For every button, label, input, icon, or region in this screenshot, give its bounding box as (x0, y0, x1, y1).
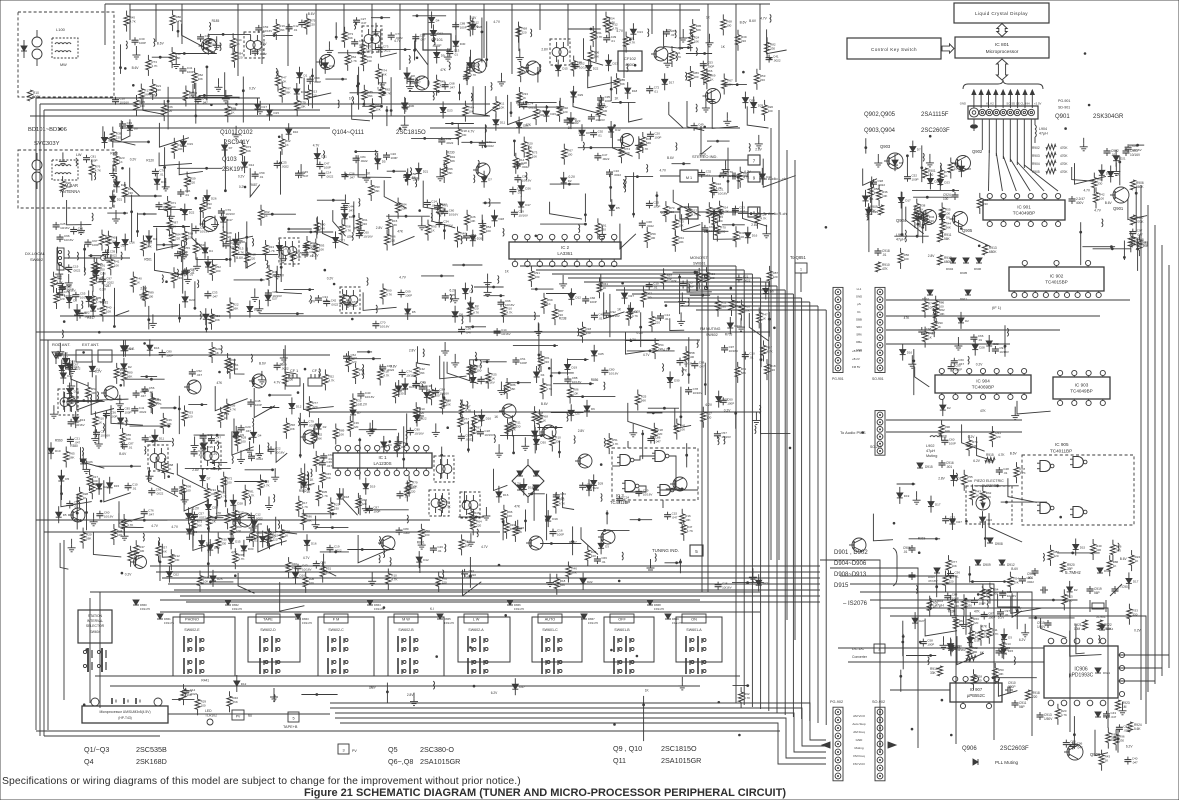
resistor R907 (1130, 215, 1144, 225)
svg-text:Microprocessor: Microprocessor (986, 49, 1019, 55)
svg-text:0.2V: 0.2V (238, 175, 245, 179)
svg-text:330: 330 (929, 219, 934, 223)
svg-text:4.7V: 4.7V (274, 381, 281, 385)
svg-text:100: 100 (1099, 196, 1104, 200)
svg-text:D8: D8 (210, 315, 214, 319)
svg-text:100: 100 (591, 554, 596, 558)
svg-text:L100: L100 (56, 27, 66, 32)
svg-text:10K: 10K (573, 392, 578, 396)
wire vbus bend (552, 273, 752, 275)
svg-text:4.7K: 4.7K (609, 21, 615, 25)
svg-text:D12: D12 (329, 64, 335, 68)
svg-text:4.7K: 4.7K (391, 578, 397, 582)
svg-text:1K: 1K (98, 420, 102, 424)
connector SO-902 strip (875, 707, 885, 781)
svg-text:D921: D921 (1103, 671, 1111, 675)
svg-text:1K: 1K (1135, 559, 1139, 563)
svg-text:10K: 10K (203, 580, 208, 584)
svg-text:.0022: .0022 (73, 268, 81, 272)
diode switch row (665, 614, 682, 625)
svg-text:GND: GND (960, 102, 966, 106)
label Q1-Q3 (84, 745, 167, 754)
label AM BAR (60, 183, 80, 194)
wire staircase (890, 616, 1146, 724)
svg-text:Q905: Q905 (962, 228, 973, 233)
svg-text:1SS176: 1SS176 (232, 607, 242, 611)
svg-text:1SS176: 1SS176 (302, 621, 312, 625)
switch outer box OFF (604, 617, 654, 662)
switch outer box LW (458, 617, 510, 662)
svg-text:56K: 56K (646, 141, 651, 145)
svg-text:L902: L902 (926, 444, 934, 448)
svg-text:D7: D7 (488, 178, 492, 182)
switch LW SW602-A (464, 614, 488, 674)
svg-text:6.2V: 6.2V (95, 369, 102, 373)
svg-text:10K: 10K (1013, 581, 1018, 585)
wire stereo h (430, 127, 740, 129)
wire battery out (168, 713, 330, 715)
svg-text:2SC2603F: 2SC2603F (921, 128, 950, 134)
wire top drop (623, 4, 625, 78)
label 2SC1815O top (332, 130, 426, 136)
svg-text:4.7K: 4.7K (629, 41, 635, 45)
filler cluster (347, 348, 589, 445)
svg-text:D16: D16 (987, 518, 993, 522)
svg-text:LED: LED (205, 709, 212, 713)
svg-text:LA3361: LA3361 (557, 251, 573, 256)
nand gate C (1037, 503, 1054, 514)
svg-text:SW602: SW602 (706, 333, 718, 337)
svg-text:CF 1: CF 1 (290, 369, 298, 373)
svg-text:D30: D30 (674, 378, 680, 382)
IC906 pins (1048, 638, 1106, 706)
wire hbus (168, 583, 820, 585)
wire bottom h4 (335, 718, 826, 758)
svg-text:1K: 1K (83, 496, 87, 500)
svg-text:AUTO: AUTO (545, 618, 556, 622)
wire right margin (1147, 205, 1149, 692)
out box 7 (748, 155, 760, 165)
svg-text:.0022: .0022 (281, 164, 289, 168)
svg-text:D16: D16 (907, 351, 913, 355)
filler cluster (339, 150, 504, 247)
svg-text:1/50V: 1/50V (1044, 717, 1053, 721)
svg-text:PLL Muting: PLL Muting (995, 760, 1019, 765)
svg-text:2SC380-O: 2SC380-O (420, 745, 454, 754)
svg-text:PV: PV (236, 715, 241, 719)
svg-text:.0022: .0022 (259, 52, 267, 56)
diode PLL (973, 759, 978, 765)
wire toq851 (800, 273, 802, 292)
svg-text:10K: 10K (882, 194, 887, 198)
resistor R918 (1025, 690, 1039, 700)
wire r2 (1118, 667, 1162, 669)
svg-text:L904: L904 (1039, 127, 1047, 131)
svg-text:56K: 56K (306, 518, 311, 522)
svg-text:D8: D8 (73, 299, 77, 303)
svg-text:4.7K: 4.7K (386, 293, 392, 297)
wire vbus bend (568, 277, 761, 279)
capacitor C909 (1040, 587, 1048, 594)
svg-text:D27: D27 (272, 296, 278, 300)
filler cluster (340, 264, 774, 368)
transistor Q107 (523, 61, 540, 75)
svg-text:Muting: Muting (926, 454, 937, 458)
wire hbus (174, 589, 820, 591)
op-amp U1 IC801 microprocessor block (955, 37, 1049, 58)
svg-text:DBB: DBB (856, 317, 862, 321)
transformer T103 (434, 456, 454, 482)
wire top drop (707, 4, 709, 66)
svg-text:D17: D17 (1133, 579, 1139, 583)
svg-text:0.2V: 0.2V (125, 572, 132, 576)
svg-text:D27: D27 (956, 520, 962, 524)
filler cluster (623, 140, 796, 248)
transistor Q101 (199, 39, 217, 54)
svg-text:.01: .01 (698, 127, 703, 131)
svg-text:.01: .01 (706, 174, 711, 178)
svg-text:Q901: Q901 (1055, 114, 1070, 120)
svg-text:100: 100 (689, 355, 694, 359)
svg-text:D27: D27 (629, 294, 635, 298)
LCD block (954, 3, 1049, 23)
wire top drop (679, 4, 681, 50)
svg-text:4.7K: 4.7K (744, 696, 750, 700)
svg-text:4.7K: 4.7K (743, 176, 749, 180)
svg-text:.047: .047 (699, 365, 705, 369)
wire vbus (743, 270, 745, 705)
svg-text:R441: R441 (201, 678, 209, 682)
svg-text:Q906: Q906 (962, 746, 977, 752)
svg-text:56K: 56K (641, 399, 646, 403)
wire mid h7 (60, 315, 540, 317)
svg-text:1K: 1K (264, 214, 268, 218)
wire vbus bend (696, 309, 826, 311)
svg-text:MW: MW (60, 63, 67, 67)
svg-text:Specifications or wiring diagr: Specifications or wiring diagrams of thi… (2, 776, 521, 787)
nand gate IC3-B (652, 451, 669, 462)
svg-text:R687: R687 (250, 183, 258, 187)
svg-text:Auto Stop: Auto Stop (852, 722, 866, 726)
svg-text:D27: D27 (919, 619, 925, 623)
svg-text:.01: .01 (198, 453, 203, 457)
wire mid h5 (36, 519, 430, 521)
wire vbus bend (632, 293, 793, 295)
capacitor C913 (1037, 712, 1054, 721)
svg-text:100: 100 (233, 367, 238, 371)
CF101 box (423, 34, 451, 50)
transistor Q902 (953, 149, 983, 171)
svg-text:.01: .01 (882, 253, 887, 257)
svg-text:100: 100 (215, 269, 220, 273)
label IF1 (992, 306, 1002, 310)
wire vbus (784, 290, 786, 715)
svg-text:100: 100 (309, 581, 314, 585)
svg-text:D28: D28 (965, 167, 971, 171)
transformer T1 (58, 389, 78, 415)
label IC905 (1050, 442, 1072, 454)
svg-text:R687: R687 (569, 541, 577, 545)
svg-text:To Q851: To Q851 (790, 255, 807, 260)
svg-text:10K: 10K (111, 240, 116, 244)
svg-text:220: 220 (188, 414, 193, 418)
out box 8 (748, 207, 787, 217)
op-amp U2 IC901 (983, 193, 1065, 226)
svg-text:TAPE+B: TAPE+B (283, 725, 298, 729)
transformer T2 (148, 445, 168, 471)
diode switch row (507, 600, 524, 611)
wire right margin (1168, 265, 1170, 668)
connector net labels (856, 287, 862, 352)
svg-text:D28: D28 (979, 346, 985, 350)
svg-text:10K: 10K (319, 248, 324, 252)
svg-text:1K: 1K (975, 493, 979, 497)
svg-text:390P: 390P (1008, 685, 1015, 689)
svg-text:10/16V: 10/16V (263, 29, 273, 33)
wire top drop (129, 4, 131, 40)
filler cluster (251, 468, 342, 560)
svg-text:IC 2: IC 2 (561, 245, 570, 250)
IC3 dashed box (612, 448, 698, 500)
svg-text:56K: 56K (285, 91, 290, 95)
svg-text:56K: 56K (233, 700, 238, 704)
arrow 902 right (888, 742, 896, 748)
svg-text:330: 330 (1097, 182, 1102, 186)
svg-text:1K: 1K (944, 174, 948, 178)
svg-text:2SA1015GR: 2SA1015GR (661, 756, 701, 765)
wire hbus (186, 601, 820, 603)
resistor R909 (870, 205, 884, 215)
resistor R916 (930, 666, 943, 676)
svg-text:1K: 1K (346, 298, 350, 302)
svg-text:D21: D21 (1120, 157, 1126, 161)
filler cluster (900, 296, 1009, 395)
svg-text:2.8V: 2.8V (140, 286, 147, 290)
box 3 tape (283, 712, 299, 729)
transistor Q10 (526, 536, 543, 550)
svg-text:B.6V: B.6V (740, 21, 748, 25)
switch OFF SW601-B (610, 614, 634, 674)
svg-text:4.7V: 4.7V (643, 353, 650, 357)
transistor QE (618, 134, 634, 147)
svg-text:Q904: Q904 (896, 218, 907, 223)
svg-text:.01: .01 (1003, 471, 1008, 475)
caption line1 (2, 776, 521, 787)
svg-text:330: 330 (1096, 548, 1101, 552)
filler cluster (50, 353, 131, 526)
svg-text:10/16V: 10/16V (518, 213, 528, 217)
transistor Q110 (469, 59, 486, 73)
svg-text:2SC535B: 2SC535B (136, 745, 167, 754)
svg-text:D12: D12 (241, 682, 247, 686)
transformer T104 (340, 287, 360, 313)
svg-text:470K: 470K (1060, 146, 1068, 150)
svg-text:TUNING IND.: TUNING IND. (652, 548, 679, 553)
diode D912 (999, 560, 1015, 567)
svg-text:10/16V: 10/16V (1130, 153, 1141, 157)
svg-text:10K: 10K (177, 147, 182, 151)
wire top drop (483, 4, 485, 58)
svg-text:56P: 56P (1094, 591, 1100, 595)
svg-text:R560: R560 (55, 438, 63, 442)
svg-text:220: 220 (310, 23, 315, 27)
svg-text:K1 K2: K1 K2 (986, 102, 994, 106)
coil T100 (32, 30, 42, 66)
wire top drop (261, 4, 263, 64)
svg-text:TC4069BP: TC4069BP (972, 385, 994, 390)
transistor Q904 (896, 210, 937, 225)
svg-text:Figure 21 SCHEMATIC DIAGRAM (T: Figure 21 SCHEMATIC DIAGRAM (TUNER AND M… (304, 787, 786, 799)
svg-text:47µH: 47µH (896, 238, 905, 242)
svg-text:GND: GND (856, 295, 862, 299)
svg-text:6.2V: 6.2V (491, 691, 498, 695)
filler cluster (369, 677, 750, 741)
svg-text:D2: D2 (128, 365, 132, 369)
transistor Q905 (950, 212, 973, 234)
svg-text:10K: 10K (998, 672, 1003, 676)
out box 9 (748, 172, 786, 182)
svg-text:100: 100 (646, 296, 651, 300)
svg-text:4.7K: 4.7K (127, 523, 133, 527)
svg-text:100: 100 (148, 295, 153, 299)
transistor Q111 (412, 76, 429, 90)
wire IC3 internal (612, 441, 698, 508)
svg-text:LW: LW (76, 153, 82, 157)
svg-text:0.2V: 0.2V (724, 408, 731, 412)
wire conn h2 (886, 315, 1100, 317)
svg-text:AM VCO: AM VCO (853, 714, 866, 718)
svg-text:Microprocessor UM/SUM3x5(4.5V): Microprocessor UM/SUM3x5(4.5V) (99, 710, 150, 714)
resistor R921 (1074, 620, 1088, 631)
svg-text:D25: D25 (217, 577, 223, 581)
svg-text:SW602-A: SW602-A (468, 628, 484, 632)
svg-text:100: 100 (972, 650, 977, 654)
svg-text:100P: 100P (110, 415, 117, 419)
svg-text:47K: 47K (882, 267, 889, 271)
svg-text:OFF: OFF (618, 618, 626, 622)
label PG-901b (832, 377, 884, 381)
label rod ant (52, 342, 99, 347)
svg-text:D20: D20 (1106, 171, 1112, 175)
label D904-D906 (834, 561, 867, 567)
svg-text:D2: D2 (568, 179, 572, 183)
svg-text:6.2V: 6.2V (699, 153, 706, 157)
svg-text:D23: D23 (944, 181, 950, 185)
svg-text:R891: R891 (417, 540, 425, 544)
wire left top h1 (36, 97, 260, 99)
filler cluster (458, 270, 512, 337)
label IC3 (610, 493, 630, 505)
svg-text:330: 330 (534, 275, 539, 279)
label FM2.5V (852, 349, 862, 369)
antenna ext sym (76, 350, 112, 362)
resistor R902 (1032, 144, 1068, 150)
svg-text:R856: R856 (110, 152, 118, 156)
svg-text:D3: D3 (388, 443, 392, 447)
label DC-DC (852, 644, 885, 659)
svg-text:100P: 100P (78, 231, 85, 235)
coil T004 (32, 153, 42, 189)
switch outer box PHONO (173, 617, 235, 676)
svg-text:TC4011BP: TC4011BP (1050, 449, 1072, 454)
svg-text:220: 220 (312, 405, 317, 409)
svg-text:6.2V: 6.2V (1126, 744, 1133, 748)
svg-text:330: 330 (366, 49, 371, 53)
svg-text:56K: 56K (696, 28, 701, 32)
svg-text:220: 220 (995, 435, 1000, 439)
svg-text:D8: D8 (899, 161, 903, 165)
svg-text:270K: 270K (1136, 220, 1144, 224)
station selector contacts (83, 648, 106, 672)
wire 906 h (838, 647, 1044, 649)
svg-text:D6: D6 (591, 407, 595, 411)
svg-text:10K: 10K (66, 185, 71, 189)
svg-text:1K: 1K (735, 304, 739, 308)
svg-text:10/16V: 10/16V (727, 174, 737, 178)
label IS2076 (843, 601, 868, 607)
svg-text:470K: 470K (1060, 170, 1068, 174)
svg-text:IC 901: IC 901 (1017, 205, 1031, 210)
svg-text:.0022: .0022 (360, 159, 368, 163)
svg-text:400V: 400V (1076, 201, 1084, 205)
svg-text:56K: 56K (447, 171, 452, 175)
svg-text:D914: D914 (1106, 627, 1114, 631)
wire top drop (371, 4, 373, 54)
svg-text:47/16V: 47/16V (928, 579, 938, 583)
cf1 sym (286, 374, 300, 386)
filler cluster (429, 11, 787, 130)
svg-text:10/16V: 10/16V (120, 101, 130, 105)
diode switch row (367, 600, 384, 611)
svg-text:FM 5V: FM 5V (852, 365, 860, 369)
wire top drop (511, 4, 513, 74)
svg-text:560K: 560K (1136, 185, 1144, 189)
svg-text:K.I: K.I (430, 607, 434, 611)
svg-text:10/16V: 10/16V (200, 230, 210, 234)
svg-text:10/16V: 10/16V (449, 212, 459, 216)
svg-text:56K: 56K (233, 307, 238, 311)
svg-text:100P: 100P (405, 294, 412, 298)
svg-text:D17: D17 (935, 503, 941, 507)
svg-text:100: 100 (739, 235, 744, 239)
filler cluster (343, 345, 630, 573)
svg-text:R904: R904 (1032, 162, 1040, 166)
svg-text:SW604: SW604 (89, 630, 100, 634)
control key switch block (847, 38, 941, 59)
svg-text:220: 220 (522, 31, 527, 35)
label mono/st (690, 256, 708, 266)
svg-text:Q9 , Q10: Q9 , Q10 (613, 744, 642, 753)
wire sw bot (95, 675, 740, 677)
svg-text:D19: D19 (370, 485, 376, 489)
svg-text:.01: .01 (293, 28, 298, 32)
svg-text:D13: D13 (637, 30, 643, 34)
op-amp U6 IC906 (1044, 646, 1118, 698)
svg-text:4.7K: 4.7K (506, 311, 512, 315)
svg-text:.0022: .0022 (446, 141, 454, 145)
buzzer dashed box (966, 479, 1012, 524)
svg-text:56K: 56K (246, 149, 251, 153)
wire hbus (180, 595, 820, 597)
svg-text:D16: D16 (503, 493, 509, 497)
svg-text:100: 100 (928, 306, 933, 310)
svg-text:100P: 100P (391, 156, 398, 160)
wire conn h3 (886, 329, 1060, 331)
svg-text:D27: D27 (575, 411, 581, 415)
svg-text:D22: D22 (173, 573, 179, 577)
svg-text:4.7K: 4.7K (992, 632, 998, 636)
svg-text:D29: D29 (758, 104, 764, 108)
